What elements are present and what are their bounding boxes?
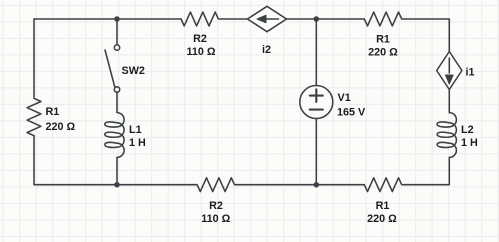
wire L2 to bottom-right corner [403,157,450,184]
inductor L2 [437,90,456,158]
svg-text:i1: i1 [466,67,475,79]
svg-text:220 Ω: 220 Ω [367,213,397,225]
i2 arrow [264,18,279,20]
svg-text:R2: R2 [209,200,223,212]
resistor R2 bottom [197,178,234,192]
resistor R2 top [181,12,218,26]
V1 minus sign [310,109,323,111]
switch SW2 top contact [114,45,119,50]
wire top-left horizontal [34,18,181,20]
svg-text:i2: i2 [262,44,271,56]
svg-text:220 Ω: 220 Ω [368,47,398,59]
wire bottom left [34,136,197,185]
wire i2 to R1 [287,18,365,20]
voltage source V1 circle [300,86,333,119]
svg-text:110 Ω: 110 Ω [201,213,230,225]
inductor L1 [105,92,124,157]
svg-text:R1: R1 [46,106,60,118]
current source i2 diamond [248,6,287,31]
svg-text:L2: L2 [461,124,474,136]
svg-text:L1: L1 [129,124,142,136]
current source i1 diamond [437,52,462,90]
svg-text:165 V: 165 V [337,107,366,119]
wire V1 to bottom [315,119,317,185]
svg-text:1 H: 1 H [461,137,478,149]
resistor R1 left [27,98,41,135]
V1 plus sign [310,89,323,102]
svg-text:R1: R1 [376,34,390,46]
junction dot bottom L1 branch [114,182,120,188]
svg-text:R2: R2 [193,33,207,45]
resistor R1 top [364,12,401,26]
wire L1 to bottom [116,157,118,184]
svg-text:110 Ω: 110 Ω [186,46,215,58]
junction dot top-left branch [114,16,120,22]
junction dot top V1 branch [314,16,320,22]
switch SW2 blade [105,50,115,87]
wire bottom middle [236,184,365,186]
wire R1 to top-right corner [403,19,450,52]
svg-text:SW2: SW2 [122,65,145,77]
wire V1 branch top [315,19,317,86]
switch SW2 bottom contact [114,87,119,92]
wire switch branch top [116,19,118,45]
wire left vertical top [33,19,35,97]
resistor R1 bottom [364,178,401,192]
svg-text:1 H: 1 H [129,137,146,149]
svg-text:V1: V1 [338,92,351,104]
svg-text:220 Ω: 220 Ω [46,121,76,133]
junction dot bottom V1 branch [314,182,320,188]
i1 arrow [448,58,450,73]
wire R2 to i2 [219,18,247,20]
svg-text:R1: R1 [376,200,390,212]
